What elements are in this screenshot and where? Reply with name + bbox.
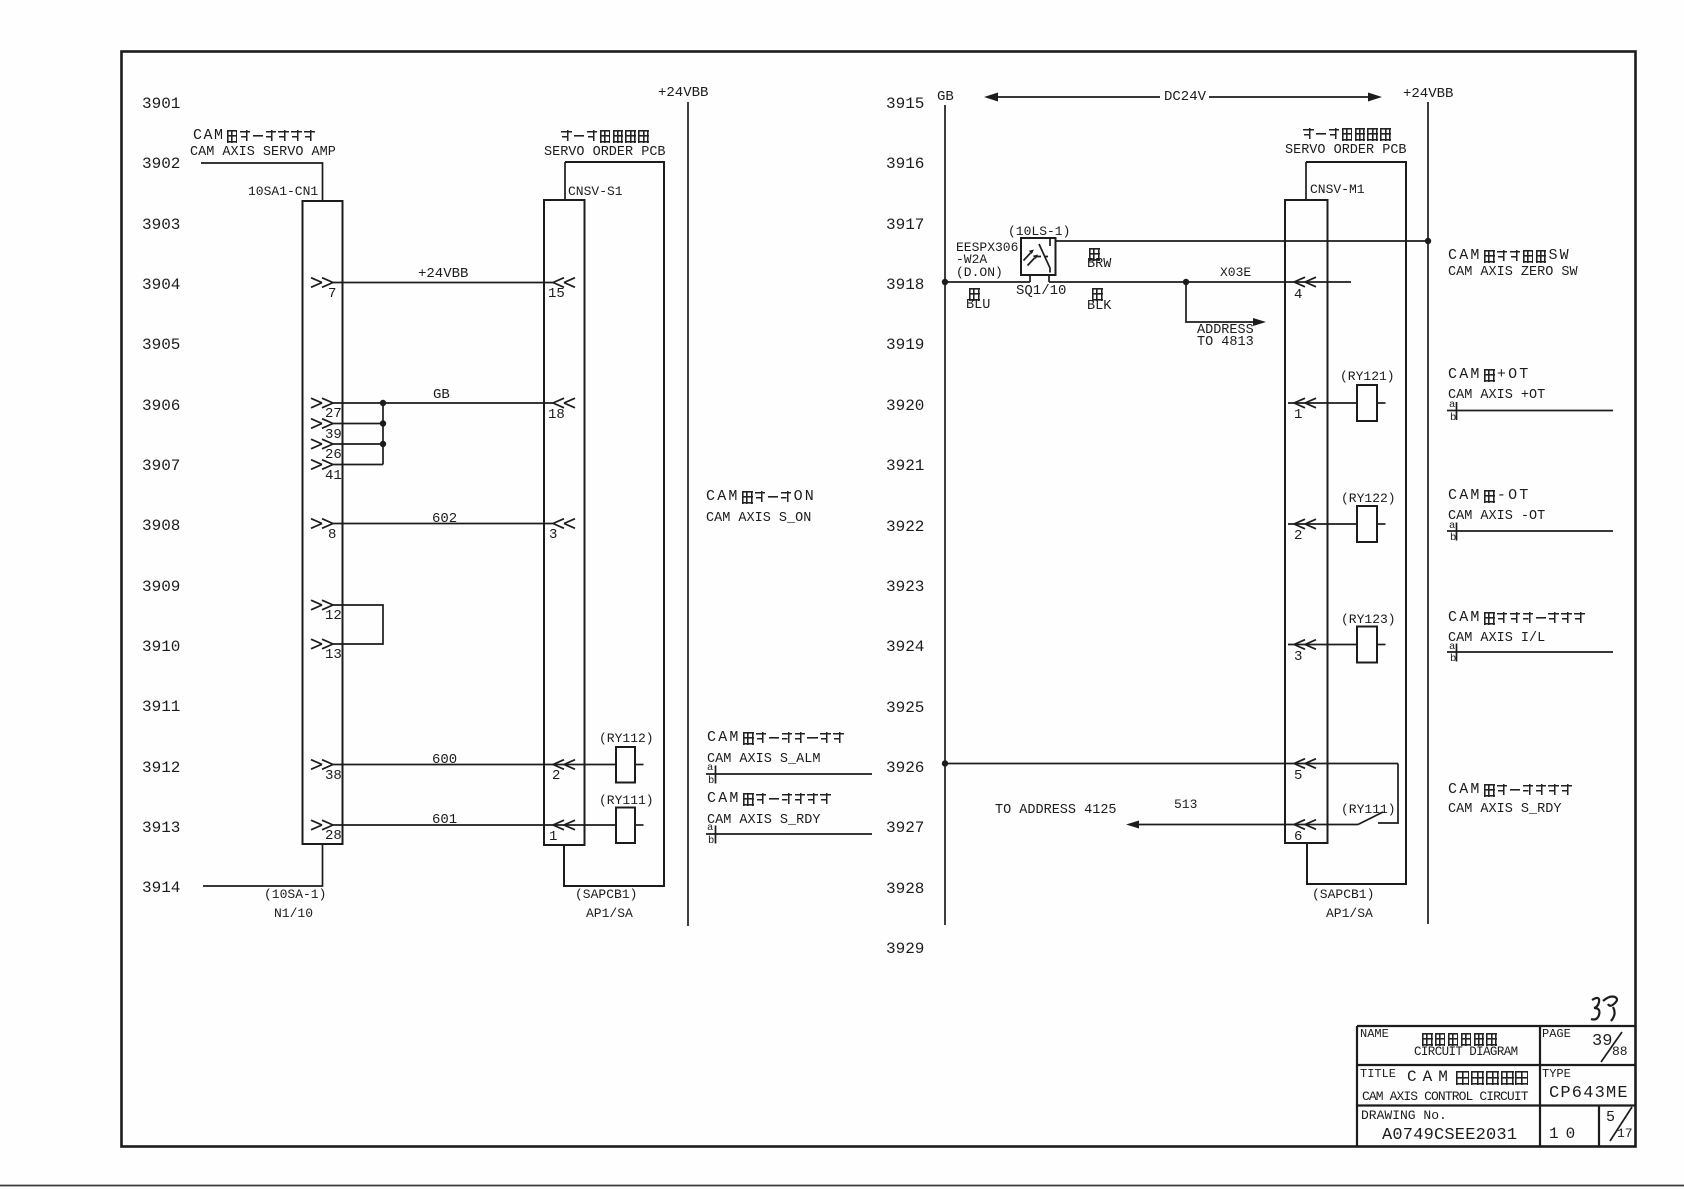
wire +24VBB pin7 to pin15 [333,282,553,284]
pin number 5 CNSV-M1 [1294,769,1302,783]
label ADDRESS TO 4813 [1197,324,1254,338]
label BLU [966,299,990,313]
wire GB pin27 to pin18 [333,402,553,404]
relay coil RY123 [1357,627,1377,663]
label N1/10 [274,907,313,920]
pin number 13 10SA1 [325,648,342,662]
pin number 27 10SA1 [325,407,342,421]
line number 3901 [142,96,180,112]
net label 601 [432,813,457,827]
pin 7 arrow [311,278,333,288]
net label +24VBB 7-15 [418,267,468,281]
label servo order pcb left jp [561,129,649,143]
pin 15 arrow [553,278,575,288]
pin 2 arrow [553,760,575,770]
label AP1/SA left [586,907,633,920]
label 10SA1-CN1 [248,185,318,198]
line number 3922 [886,519,924,535]
line number 3907 [142,458,180,474]
label CAM AXIS S_RDY right jp [1448,783,1572,797]
line number 3910 [142,639,180,655]
wire pin3 to RY123 [1288,644,1357,646]
SQ1 contact blade [1039,244,1050,273]
relay contact RY111 blade [1358,812,1383,825]
photoelectric switch 10LS-1 SQ1/10 box [1021,238,1056,275]
pin 3 arrow [553,519,575,529]
SQ1 fixed contact tick [1049,239,1051,246]
sheet 10 [1549,1126,1582,1142]
label BRW [1087,258,1111,272]
line number 3911 [142,699,180,715]
wire 600 pin38 to pin2 [333,764,616,766]
pin number 12 10SA1 [325,609,342,623]
relay coil RY111 left [616,808,635,844]
sheet 5 [1606,1110,1615,1125]
net label X03E [1220,266,1251,279]
label CAM AXIS S_ON jp [706,490,816,504]
junction GB-39 [380,400,386,406]
PCB outline SERVO ORDER PCB right [1306,162,1406,884]
label TO ADDRESS 4125 [995,804,1117,818]
title block DRAWING No. [1361,1109,1447,1122]
drawing number A0749CSEE2031 [1382,1127,1517,1144]
label servo order pcb right jp [1303,127,1391,141]
wire X03E SQ1 to CNSV-M1 pin4 [1049,281,1351,283]
title block PAGE [1542,1028,1571,1040]
wire 602 pin8 to pin3 [333,523,553,525]
connector CNSV-M1 box [1285,200,1328,843]
pin number 3 CNSV-S1 [549,528,557,542]
label (RY123) [1341,613,1396,626]
label (10SA-1) [264,888,326,901]
label CAM AXIS I/L jp [1448,611,1585,625]
wire RY123 stub [1377,644,1386,646]
line number 3929 [886,941,924,957]
+24VBB rail left [687,102,689,926]
label +24VBB left rail [658,86,708,100]
label +24VBB right rail [1403,87,1453,101]
pin number 41 10SA1 [325,469,342,483]
label CNSV-S1 [568,185,623,198]
pin 39 arrow [311,419,333,429]
line number 3920 [886,398,924,414]
line number 3917 [886,217,924,233]
junction +24VBB [1425,238,1431,244]
relay coil RY112 [616,747,635,783]
net label GB 27-18 [433,388,450,402]
label (RY112) [599,732,654,745]
wire RY121 stub [1377,402,1386,404]
label (SAPCB1) [575,888,637,901]
title CAM AXIS CONTROL CIRCUIT [1362,1090,1528,1103]
node a/b CAM AXIS +OT [1447,410,1613,412]
junction X03E address tap [1183,279,1189,285]
junction GB pin [942,279,948,285]
net label 602 [432,512,457,526]
node a/b CAM AXIS -OT [1447,530,1613,532]
wire 601 pin28 to pin1 [333,824,616,826]
line number 3928 [886,881,924,897]
type CP643ME [1549,1085,1629,1102]
SQ1 terminal stubs [1029,275,1031,282]
label black jp [1092,287,1103,301]
sheet fraction slash 5/17 [1610,1107,1632,1141]
wire header leader CAM AXIS SERVO AMP [201,163,323,201]
pin number 26 10SA1 [325,448,342,462]
line number 3916 [886,156,924,172]
pin 18 arrow [553,398,575,408]
pin number 8 10SA1 [328,528,336,542]
SQ1 light arrow 2 [1028,258,1035,266]
line number 3915 [886,96,924,112]
pin number 2 CNSV-S1 [552,769,560,783]
label GB [937,90,954,104]
jumper wire pin12 to pin13 [333,605,383,644]
label b S_ALM [708,776,714,787]
wire RY112 stub [635,764,644,766]
DC24V range arrows [997,96,1160,98]
wire RY111 stub [635,824,644,826]
label (SAPCB1) right [1312,888,1374,901]
label (10LS-1) [1008,225,1070,238]
label a S_ALM [707,763,713,774]
title block name jp [1422,1032,1497,1046]
pin number 6 CNSV-M1 [1294,830,1302,844]
wire GB bus vertical [382,403,384,465]
line number 3904 [142,277,180,293]
wire GB to pin5 [945,763,1398,765]
line number 3903 [142,217,180,233]
line number 3905 [142,337,180,353]
label brown jp [1089,247,1100,261]
connector 10SA1-CN1 box [303,201,343,844]
pin 26 arrow [311,439,333,449]
wire pin41 stub [333,464,383,466]
title block TITLE [1360,1068,1396,1080]
label CAM AXIS SERVO AMP [190,146,336,160]
label SERVO ORDER PCB left [544,146,666,160]
line number 3925 [886,700,924,716]
wire RY122 stub [1377,523,1386,525]
net label 513 [1174,798,1197,811]
pin 8 arrow [311,519,333,529]
title jp CAM AXIS CONTROL CIRCUIT [1407,1070,1528,1084]
label CAM AXIS SERVO AMP jp [193,129,315,143]
line number 3912 [142,760,180,776]
label DC24V [1164,90,1206,104]
SQ1 light arrow 1 [1024,253,1031,261]
pin number 38 10SA1 [325,769,342,783]
GB rail [944,105,946,925]
relay coil RY121 [1357,385,1377,421]
pin number 4 CNSV-M1 [1294,288,1302,302]
PCB outline SERVO ORDER PCB left [564,162,664,886]
net label 600 [432,753,457,767]
pin 27 arrow [311,398,333,408]
label -W2A [956,253,987,266]
wire address to 4813 [1186,282,1254,322]
pin 4 arrow [1294,277,1316,287]
line number 3902 [142,156,180,172]
pin 41 arrow [311,460,333,470]
pin 28 arrow [311,820,333,830]
line number 3924 [886,639,924,655]
node a/b CAM AXIS S_RDY left [706,833,872,835]
line number 3908 [142,518,180,534]
line number 3921 [886,458,924,474]
title block CIRCUIT DIAGRAM [1414,1046,1518,1059]
line number 3906 [142,398,180,414]
pin 2 arrow M1 [1294,519,1316,529]
label CAM AXIS -OT jp [1448,489,1531,503]
node a/b CAM AXIS S_ALM [706,773,872,775]
wire pin5 drop to RY111 contact [1397,764,1399,823]
pin number 2 CNSV-M1 [1294,529,1302,543]
line number 3919 [886,337,924,353]
relay coil RY122 [1357,506,1377,542]
wire 513 pin6 to address 4125 [1133,824,1358,826]
label CAM AXIS +OT jp [1448,368,1531,382]
label b S_RDY [708,836,714,847]
pin number 28 10SA1 [325,829,342,843]
label EESPX306 [956,241,1018,254]
title block TYPE [1542,1068,1571,1080]
line number 3926 [886,760,924,776]
node a/b CAM AXIS I/L [1447,651,1613,653]
line number 3927 [886,820,924,836]
label CNSV-M1 [1310,183,1365,196]
wire to 10SA-1 N1/10 [203,844,323,886]
pin 1 arrow M1 [1294,398,1316,408]
pin number 1 CNSV-M1 [1294,408,1302,422]
connector CNSV-S1 box [544,200,585,845]
label a S_RDY [707,823,713,834]
pin 12 arrow [311,600,333,610]
page fraction slash 39/88 [1601,1032,1622,1062]
line number 3923 [886,579,924,595]
wire pin2 to RY122 [1288,523,1357,525]
RY111 contact seat [1378,822,1399,824]
page number 88 [1612,1045,1628,1058]
pin number 18 CNSV-S1 [548,408,565,422]
pin number 39 10SA1 [325,428,342,442]
SQ1 actuator dashes [1036,256,1048,258]
+24VBB rail right [1427,102,1429,924]
pin 5 arrow [1294,759,1316,769]
junction GB-41 [380,441,386,447]
page number 39 [1592,1033,1612,1050]
pin number 15 CNSV-S1 [548,287,565,301]
label CAM AXIS S_RDY left jp [707,792,831,806]
label SERVO ORDER PCB right [1285,144,1407,158]
label CAM AXIS S_ALM jp [707,731,844,745]
wire GB to SQ1 blue lead [945,281,1030,283]
sheet 17 [1617,1127,1633,1140]
pin 1 arrow [553,820,575,830]
label (RY111) right [1341,803,1396,816]
wire pin26 stub [333,443,383,445]
handwritten page mark [1591,998,1599,1020]
pin number 3 CNSV-M1 [1294,650,1302,664]
line number 3914 [142,880,180,896]
label blue jp [969,287,980,301]
pin 3 arrow M1 [1294,640,1316,650]
label (D.ON) [956,266,1003,279]
label (RY122) [1341,492,1396,505]
pin number 7 10SA1 [328,287,336,301]
label (RY121) [1340,370,1395,383]
wire pin1 to RY121 [1288,402,1357,404]
pin 6 arrow [1294,820,1316,830]
junction GB-26 [380,420,386,426]
label BLK [1087,300,1111,314]
pin 13 arrow [311,639,333,649]
line number 3918 [886,277,924,293]
junction GB pin5 [942,760,948,766]
wire pin39 stub [333,423,383,425]
label (RY111) left [599,794,654,807]
label AP1/SA right [1326,907,1373,920]
title block NAME [1360,1028,1389,1040]
label SQ1/10 [1016,284,1066,298]
line number 3913 [142,820,180,836]
wire SQ1 to +24VBB rail [1056,240,1428,242]
pin 38 arrow [311,760,333,770]
pin number 1 CNSV-S1 [549,830,557,844]
label CAM AXIS ZERO SW jp [1448,249,1571,263]
line number 3909 [142,579,180,595]
